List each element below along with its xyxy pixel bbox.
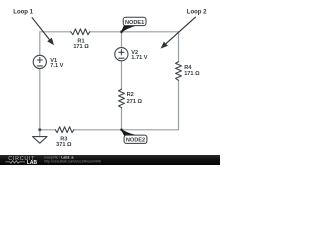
svg-text:http://circuitlab.com/c/sc24ms: http://circuitlab.com/c/sc24mssm446: [44, 160, 100, 164]
wire top rail right segment: [90, 31, 179, 33]
NODE2 flag pointer: [121, 129, 136, 135]
wire right rail lower: [178, 80, 180, 130]
svg-text:371 Ω: 371 Ω: [56, 142, 72, 148]
V1 minus sign: [37, 65, 42, 67]
wire ground stub: [39, 130, 41, 137]
wire top rail left segment: [40, 31, 71, 33]
junction dot NODE2: [120, 128, 123, 131]
V1 plus sign: [37, 57, 42, 62]
resistor R4 zigzag: [176, 62, 182, 81]
NODE2 label box: [124, 135, 147, 143]
footer logo resistor zigzag: [6, 161, 26, 164]
svg-text:171 Ω: 171 Ω: [184, 71, 200, 77]
voltage source V1: [33, 55, 46, 68]
svg-text:171 Ω: 171 Ω: [73, 44, 89, 50]
svg-text:1.71 V: 1.71 V: [131, 55, 147, 61]
loop annotation Loop 1 arrow: [32, 17, 50, 39]
junction dot ground node: [38, 128, 41, 131]
svg-text:LAB: LAB: [27, 160, 38, 165]
wire right rail upper: [178, 32, 180, 62]
wire left rail upper: [39, 32, 41, 56]
junction dot NODE1: [120, 30, 123, 33]
NODE1 label box: [123, 17, 146, 25]
svg-text:NODE2: NODE2: [126, 138, 145, 144]
svg-text:R2: R2: [127, 92, 134, 98]
svg-text:271 Ω: 271 Ω: [127, 99, 143, 105]
svg-text:7.1 V: 7.1 V: [50, 63, 63, 69]
wire middle branch between V2 and R2: [121, 60, 123, 89]
wire bottom rail left segment: [40, 129, 56, 131]
svg-text:NODE1: NODE1: [125, 20, 144, 26]
V2 plus sign: [119, 50, 124, 55]
wire left rail lower: [39, 68, 41, 130]
svg-text:Loop 1: Loop 1: [13, 10, 33, 16]
resistor R1 zigzag: [71, 29, 90, 35]
resistor R2 zigzag: [119, 89, 125, 108]
resistor R3 zigzag: [55, 127, 74, 133]
loop annotation Loop 2 arrow: [166, 17, 196, 44]
wire bottom rail right segment: [74, 129, 179, 131]
wire middle branch upper: [121, 32, 123, 48]
voltage source V2: [115, 48, 128, 61]
wire middle branch lower: [121, 108, 123, 130]
NODE1 flag pointer: [121, 25, 136, 32]
V2 minus sign: [119, 57, 124, 59]
ground symbol triangle: [33, 137, 47, 144]
svg-text:Loop 2: Loop 2: [187, 9, 207, 15]
